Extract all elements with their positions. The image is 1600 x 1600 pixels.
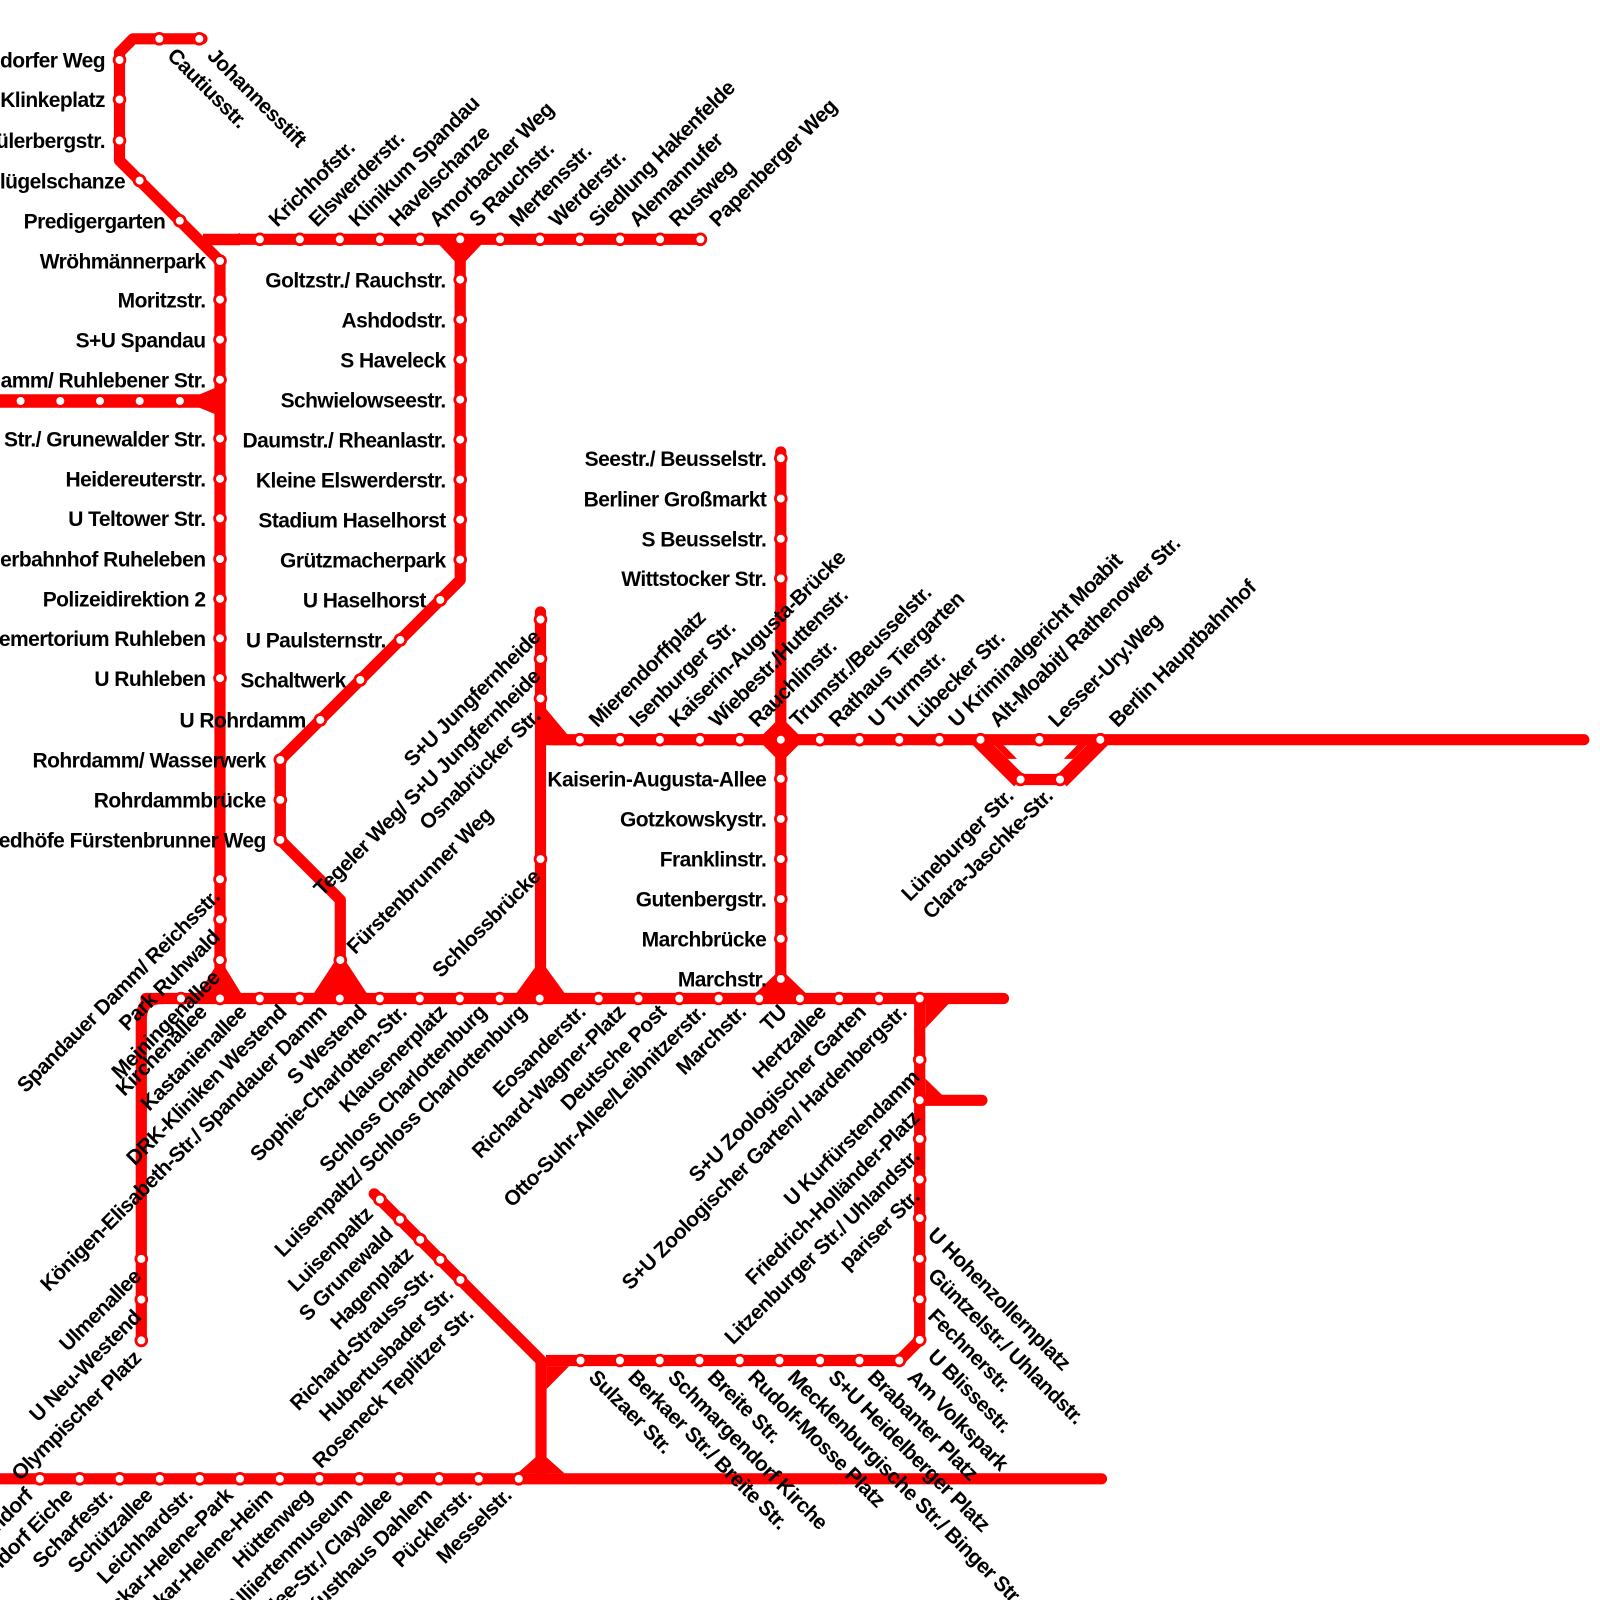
svg-text:Berliner Großmarkt: Berliner Großmarkt (584, 488, 767, 511)
svg-text:Marchbrücke: Marchbrücke (642, 929, 767, 952)
svg-text:Polizeidirektion 2: Polizeidirektion 2 (43, 589, 206, 612)
svg-text:Heidereuterstr.: Heidereuterstr. (66, 469, 206, 492)
svg-text:Wröhmännerpark: Wröhmännerpark (40, 251, 207, 274)
svg-text:dorfer Weg: dorfer Weg (0, 50, 105, 73)
svg-text:Grützmacherpark: Grützmacherpark (280, 549, 447, 572)
svg-text:erbahnhof Ruheleben: erbahnhof Ruheleben (0, 549, 205, 572)
svg-text:Klinkeplatz: Klinkeplatz (0, 89, 105, 112)
svg-text:Gotzkowskystr.: Gotzkowskystr. (620, 809, 766, 832)
svg-text:Str./ Grunewalder Str.: Str./ Grunewalder Str. (4, 428, 205, 451)
svg-text:emertorium Ruhleben: emertorium Ruhleben (0, 628, 206, 651)
svg-text:Schaltwerk: Schaltwerk (240, 670, 346, 693)
svg-text:Seestr./ Beusselstr.: Seestr./ Beusselstr. (585, 448, 767, 471)
svg-text:Franklinstr.: Franklinstr. (660, 849, 767, 872)
svg-text:Rohrdammbrücke: Rohrdammbrücke (94, 790, 266, 813)
svg-text:Ashdodstr.: Ashdodstr. (342, 309, 446, 332)
svg-text:S+U Spandau: S+U Spandau (76, 329, 206, 352)
svg-text:edhöfe Fürstenbrunner Weg: edhöfe Fürstenbrunner Weg (0, 830, 266, 853)
svg-text:amm/ Ruhlebener Str.: amm/ Ruhlebener Str. (1, 369, 206, 392)
svg-text:Rohrdamm/ Wasserwerk: Rohrdamm/ Wasserwerk (32, 750, 266, 773)
svg-text:Marchstr.: Marchstr. (678, 969, 766, 992)
svg-text:Kaiserin-Augusta-Allee: Kaiserin-Augusta-Allee (547, 769, 766, 792)
svg-text:U Teltower Str.: U Teltower Str. (68, 508, 205, 531)
svg-text:Goltzstr./ Rauchstr.: Goltzstr./ Rauchstr. (265, 269, 445, 292)
svg-text:S Beusselstr.: S Beusselstr. (642, 529, 767, 552)
svg-text:Schwielowseestr.: Schwielowseestr. (281, 389, 446, 412)
svg-text:Flügelschanze: Flügelschanze (0, 170, 125, 193)
svg-text:ülerbergstr.: ülerbergstr. (0, 130, 105, 153)
svg-text:Predigergarten: Predigergarten (24, 211, 166, 234)
svg-text:Gutenbergstr.: Gutenbergstr. (636, 889, 767, 912)
svg-text:Kleine Elswerderstr.: Kleine Elswerderstr. (256, 469, 446, 492)
svg-text:Moritzstr.: Moritzstr. (118, 289, 206, 312)
svg-text:U Haselhorst: U Haselhorst (303, 590, 426, 613)
svg-text:Daumstr./ Rheanlastr.: Daumstr./ Rheanlastr. (242, 429, 445, 452)
svg-text:S Haveleck: S Haveleck (340, 349, 446, 372)
svg-text:U Ruhleben: U Ruhleben (94, 668, 205, 691)
svg-text:Wittstocker Str.: Wittstocker Str. (621, 568, 766, 591)
svg-text:U Paulsternstr.: U Paulsternstr. (246, 630, 386, 653)
svg-text:U Rohrdamm: U Rohrdamm (179, 710, 305, 733)
svg-text:Stadium Haselhorst: Stadium Haselhorst (258, 509, 446, 532)
